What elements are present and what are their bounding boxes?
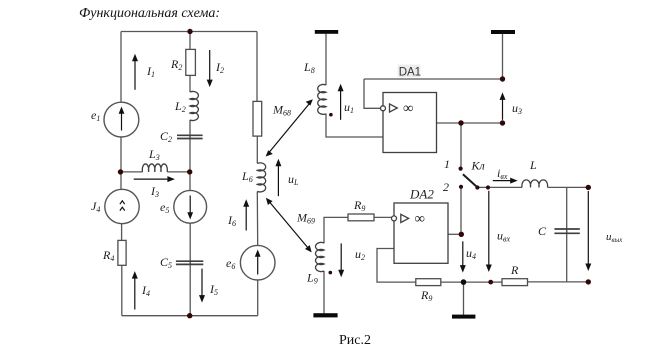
wire DA2 output bbox=[448, 233, 461, 235]
svg-text:R4: R4 bbox=[102, 248, 114, 263]
svg-text:DA1: DA1 bbox=[399, 66, 421, 78]
arrow u1 bbox=[340, 90, 342, 119]
wire L8 top bbox=[325, 34, 327, 85]
resistor R9 input bbox=[348, 214, 374, 221]
svg-text:I3: I3 bbox=[150, 184, 159, 199]
wire contact1 riser bbox=[460, 123, 462, 169]
svg-text:I2: I2 bbox=[215, 60, 224, 75]
wire branch1 J4 to R4 bbox=[121, 224, 123, 241]
source chevrons J4 bbox=[120, 201, 125, 211]
svg-text:L3: L3 bbox=[148, 147, 160, 162]
wire L2 to C2 bbox=[189, 120, 191, 138]
inductor L3 bbox=[142, 164, 167, 172]
node out bottom bbox=[586, 279, 591, 284]
svg-text:C: C bbox=[538, 224, 547, 238]
arrow u4 bbox=[462, 241, 464, 266]
svg-text:e5: e5 bbox=[160, 200, 169, 215]
svg-text:e1: e1 bbox=[91, 108, 100, 123]
wire branch2 top bbox=[189, 32, 191, 50]
source arrow e6 bbox=[257, 256, 259, 275]
op-amp DA2 bbox=[392, 203, 449, 263]
polarity dot L9 bbox=[329, 271, 333, 275]
wire R6 to L6 bbox=[256, 136, 258, 163]
node contact 2 bbox=[459, 185, 463, 189]
svg-text:uвх: uвх bbox=[497, 229, 510, 244]
wire contact2 drop bbox=[460, 186, 462, 234]
node pole wire bbox=[486, 185, 490, 189]
source e5 bbox=[174, 190, 207, 223]
arrow I2 bbox=[209, 50, 211, 80]
svg-text:I1: I1 bbox=[146, 64, 155, 79]
wire L8 to DA1 input bbox=[326, 114, 383, 137]
inductor L8 bbox=[318, 85, 326, 115]
arrow I3 bbox=[134, 178, 169, 180]
svg-text:L8: L8 bbox=[303, 60, 315, 75]
svg-text:uвых: uвых bbox=[606, 231, 623, 244]
wire gnd drop mid bbox=[463, 282, 465, 315]
wire bottom right bbox=[528, 281, 589, 283]
wire L to out node bbox=[548, 186, 589, 188]
svg-text:I6: I6 bbox=[227, 213, 236, 228]
svg-text:L: L bbox=[529, 158, 537, 172]
svg-text:Функциональная схема:: Функциональная схема: bbox=[79, 6, 220, 21]
resistor R9 feedback bbox=[416, 279, 441, 286]
wire bottom rail bbox=[122, 315, 258, 317]
resistor R2 bbox=[186, 49, 196, 75]
wire R to uvx node bbox=[491, 281, 502, 283]
resistor R bbox=[502, 279, 528, 286]
svg-text:I5: I5 bbox=[209, 282, 218, 297]
wire top rail bbox=[121, 31, 257, 33]
node switch pole bbox=[475, 185, 479, 189]
wire C branch top bbox=[566, 187, 568, 233]
svg-text:∞: ∞ bbox=[415, 211, 425, 227]
op-amp DA1 bbox=[381, 93, 437, 153]
svg-text:C5: C5 bbox=[160, 255, 172, 270]
svg-text:2: 2 bbox=[443, 180, 449, 194]
inductor L2 bbox=[190, 91, 198, 120]
wire branch3 top bbox=[256, 32, 258, 102]
wire e6 to bottom bbox=[257, 280, 259, 316]
wire C5 to bottom bbox=[189, 262, 191, 316]
svg-text:u1: u1 bbox=[344, 100, 354, 115]
svg-text:R2: R2 bbox=[170, 57, 182, 72]
source e1 bbox=[104, 102, 139, 137]
svg-text:e6: e6 bbox=[226, 256, 235, 271]
wire C branch bottom bbox=[566, 229, 568, 282]
wire gnd node to R bbox=[464, 281, 491, 283]
capacitor C5 bbox=[176, 261, 203, 264]
svg-text:R: R bbox=[510, 263, 519, 277]
wire DA1 gnd drop bbox=[502, 34, 504, 79]
capacitor C2 bbox=[177, 135, 203, 138]
inductor L6 bbox=[257, 163, 265, 192]
svg-text:u2: u2 bbox=[355, 247, 365, 262]
svg-text:1: 1 bbox=[444, 157, 450, 171]
node DA1 output a bbox=[458, 120, 463, 125]
wire R9fb to gnd node bbox=[441, 281, 464, 283]
svg-text:M68: M68 bbox=[272, 103, 291, 118]
wire branch1 upper bbox=[120, 32, 122, 103]
arrow uL bbox=[277, 165, 279, 196]
svg-text:C2: C2 bbox=[160, 129, 172, 144]
wire R9 to DA2 input bbox=[374, 216, 392, 218]
svg-text:iвх: iвх bbox=[497, 166, 508, 181]
arrow I4 bbox=[134, 278, 136, 310]
wire e5 to C5 bbox=[189, 223, 191, 264]
svg-text:u3: u3 bbox=[512, 101, 522, 116]
node contact 1 bbox=[459, 167, 463, 171]
ground bar DA1 top bbox=[491, 30, 515, 34]
svg-text:I4: I4 bbox=[141, 283, 150, 298]
arrow uvyx bbox=[587, 191, 589, 264]
svg-text:Кл: Кл bbox=[471, 159, 485, 173]
ground bar L9 bottom bbox=[313, 313, 337, 317]
node out top bbox=[586, 185, 591, 190]
wire L9 bottom bbox=[323, 271, 325, 313]
source arrow e1 bbox=[121, 113, 123, 131]
node uvx bottom bbox=[488, 280, 493, 285]
svg-text:DA2: DA2 bbox=[409, 187, 434, 202]
switch lever bbox=[463, 174, 477, 187]
wire DA1 noninv input bbox=[364, 79, 380, 108]
wire R2 to L2 bbox=[189, 75, 191, 92]
svg-text:uL: uL bbox=[288, 172, 299, 187]
wire L3 left bbox=[121, 171, 143, 173]
svg-text:M69: M69 bbox=[296, 211, 315, 226]
arrow I6 bbox=[245, 206, 247, 231]
wire L3 right bbox=[167, 171, 189, 173]
wire DA2 inv input bbox=[377, 249, 416, 283]
node top rail bbox=[187, 29, 192, 34]
svg-text:R9: R9 bbox=[420, 288, 432, 303]
svg-text:L9: L9 bbox=[306, 271, 318, 286]
arrow M68 bbox=[269, 103, 310, 153]
arrow u2 bbox=[340, 243, 342, 270]
polarity dot L8 bbox=[329, 113, 333, 117]
capacitor C bbox=[554, 229, 579, 233]
wire branch1 mid bbox=[120, 137, 122, 190]
ground bar mid bottom bbox=[452, 315, 475, 319]
svg-text:∞: ∞ bbox=[403, 101, 413, 117]
label DA1 bbox=[398, 65, 421, 78]
wire switch pole to L bbox=[478, 186, 522, 188]
svg-text:R9: R9 bbox=[353, 198, 365, 213]
wire DA1 top feedback rail bbox=[364, 78, 503, 80]
arrow u3 bbox=[502, 99, 504, 120]
node mid bbox=[187, 169, 192, 174]
source arrow e5 bbox=[189, 196, 191, 214]
arrow uvx bbox=[488, 191, 490, 265]
svg-text:L2: L2 bbox=[174, 99, 186, 114]
svg-text:Рис.2: Рис.2 bbox=[339, 333, 371, 348]
ground bar L8 top bbox=[315, 30, 338, 34]
node left mid bbox=[118, 169, 123, 174]
resistor R6 bbox=[253, 101, 262, 136]
node DA1 feedback bbox=[500, 76, 505, 81]
svg-text:L6: L6 bbox=[241, 169, 253, 184]
source J4 bbox=[105, 189, 139, 223]
wire C2 to e5 bbox=[189, 136, 191, 191]
svg-text:J4: J4 bbox=[91, 199, 100, 214]
arrow I1 bbox=[134, 61, 136, 90]
wire DA1 output bbox=[437, 122, 503, 124]
wire L6 to e6 bbox=[256, 192, 258, 246]
node DA2 output bbox=[459, 232, 464, 237]
svg-text:u4: u4 bbox=[466, 246, 476, 261]
inductor L9 bbox=[315, 242, 324, 271]
node bottom rail bbox=[187, 313, 192, 318]
resistor R4 bbox=[118, 240, 126, 265]
wire branch1 lower bbox=[121, 265, 123, 315]
source e6 bbox=[240, 245, 275, 280]
node DA1 output b bbox=[500, 120, 505, 125]
arrow ivx bbox=[493, 180, 511, 182]
inductor L output bbox=[522, 180, 548, 188]
arrow M69 bbox=[269, 201, 309, 249]
wire L9 to R9 bbox=[324, 217, 348, 243]
node gnd junction bbox=[461, 279, 467, 285]
arrow I5 bbox=[201, 269, 203, 296]
